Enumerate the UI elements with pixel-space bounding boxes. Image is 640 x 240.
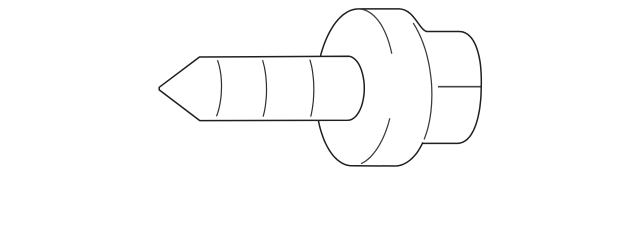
washer top silhouette with rounded shoulder [358,9,427,32]
washer left-face inner edge lower segment [361,118,390,163]
thread arc 2 [263,60,267,117]
washer left-face silhouette [316,9,358,166]
washer right-face inner edge [413,23,432,140]
washer left-face inner edge upper segment [358,9,392,54]
head facet line [438,86,481,88]
washer bottom-right silhouette [352,142,423,166]
screw shaft with pointed tip [159,56,364,120]
hex head [420,31,481,143]
thread arc 1 [217,60,222,116]
washer body fill [316,9,432,166]
thread arc 3 [310,60,314,117]
